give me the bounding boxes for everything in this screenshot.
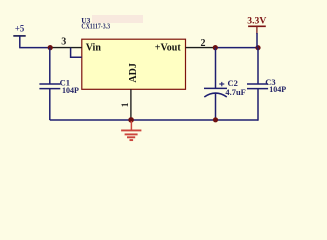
svg-text:+Vout: +Vout	[155, 42, 182, 53]
pin 1 of U3	[130, 89, 132, 120]
junction dot output/C2	[213, 45, 218, 50]
svg-text:2: 2	[201, 38, 206, 49]
svg-text:ADJ: ADJ	[128, 63, 139, 82]
regulator U3 body	[82, 39, 186, 89]
svg-text:4.7uF: 4.7uF	[225, 87, 245, 97]
svg-text:Vin: Vin	[86, 42, 102, 53]
wire 3.3V stub	[256, 33, 258, 48]
wire jog into Vin	[71, 48, 82, 58]
svg-text:3.3V: 3.3V	[247, 16, 266, 26]
pin 3 of U3	[50, 47, 82, 49]
junction dot output/C3	[255, 45, 260, 50]
svg-text:+5: +5	[15, 24, 25, 34]
pin 2 of U3	[186, 47, 215, 49]
svg-text:1: 1	[121, 102, 131, 107]
ground rail wire	[50, 119, 258, 121]
capacitor C3	[247, 48, 286, 121]
capacitor C1	[39, 48, 79, 120]
svg-text:104P: 104P	[62, 85, 79, 95]
junction dot ground rail/C2	[213, 117, 218, 122]
wire output	[214, 47, 258, 49]
junction dot input/C1	[48, 45, 53, 50]
power port 3.3V	[247, 16, 266, 34]
junction dot ground	[128, 117, 134, 123]
wire +5 stub	[19, 36, 21, 48]
capacitor C2	[204, 48, 246, 120]
wire +5 to pin 3	[19, 47, 52, 49]
faint highlight	[92, 15, 143, 23]
ground symbol	[121, 121, 141, 140]
svg-text:CX1117-3.3: CX1117-3.3	[81, 23, 110, 31]
power port +5	[13, 24, 25, 36]
svg-text:3: 3	[61, 37, 66, 48]
svg-text:104P: 104P	[269, 84, 286, 94]
